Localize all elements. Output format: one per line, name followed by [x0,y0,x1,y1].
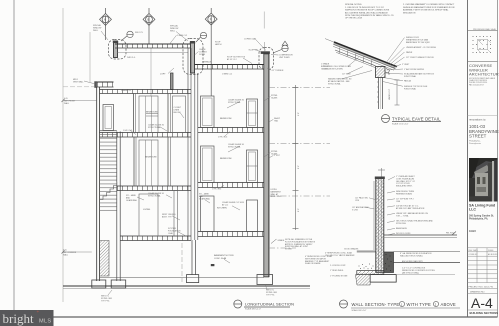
svg-text:ON 6 MIL POLY VAPOR BARRIER: ON 6 MIL POLY VAPOR BARRIER [325,254,355,257]
label lintel basement [271,189,283,198]
svg-text:1 MEM CL2: 1 MEM CL2 [177,35,187,37]
general notes block 1 [345,3,394,20]
leader stl jamb mid [205,200,210,203]
svg-text:C: C [210,17,212,21]
svg-text:B: B [148,17,150,21]
tb table lines [468,248,498,310]
svg-text:OF THE IRC 2018: OF THE IRC 2018 [345,18,363,20]
basement dim dash line [181,243,183,282]
tb arch line [468,60,498,62]
svg-text:TYPICAL EAVE DETAIL: TYPICAL EAVE DETAIL [392,117,441,122]
label sys furring [168,228,181,235]
label common wall left [63,250,77,257]
detail tag circle 3 [273,41,288,53]
wall section detail [340,168,461,308]
svg-text:ABOVE: ABOVE [441,302,456,307]
svg-text:GLASS: GLASS [271,96,278,99]
svg-text:SCALE 3/4"=1'-0": SCALE 3/4"=1'-0" [352,309,367,312]
svg-text:AS 4 LAYERS INSTALLED IN ACCOR: AS 4 LAYERS INSTALLED IN ACCORDANCE [345,11,388,14]
svg-text:GRADE: GRADE [278,239,285,242]
ws title sym2 [433,301,438,306]
svg-text:SCALE 1 1/2"=1'-0": SCALE 1 1/2"=1'-0" [392,123,409,126]
svg-text:1 HR. CLG: 1 HR. CLG [212,189,222,191]
eave title underline [392,121,441,123]
eave detail group [325,38,441,123]
door L2 [139,96,158,133]
title block left border [467,0,469,317]
leader strwl glass upper [264,97,271,102]
svg-text:8'-2": 8'-2" [298,165,300,169]
loft ceiling line [118,52,189,54]
leader clear glass R2 [227,102,240,109]
svg-text:BUILDING SECTIONS: BUILDING SECTIONS [470,311,499,315]
label sea ip [274,117,281,122]
border left line [13,0,15,317]
partition L2b [167,94,169,133]
svg-text:A-4: A-4 [471,295,493,311]
eave dim vertical [388,74,400,105]
leader compressor [271,54,279,57]
svg-text:MLS: MLS [39,319,51,325]
column mid ground [174,191,178,237]
leader clear glass L1 [166,195,172,198]
window sill lines R3 [247,165,258,167]
left ref tick line upper [63,100,97,102]
svg-text:CONC. SLAB: CONC. SLAB [214,257,227,260]
svg-text:BEDROOM: BEDROOM [146,112,157,114]
svg-text:1" AVC FROM VENTED: 1" AVC FROM VENTED [404,68,425,71]
tb table header [469,249,499,256]
svg-text:BARRICADE TIP 100 SQFK: BARRICADE TIP 100 SQFK [406,41,431,44]
svg-text:FIN. FLR: FIN. FLR [446,233,454,235]
footing right [257,275,273,285]
floor band R2 [198,128,264,133]
rear section front wall [195,73,198,240]
svg-text:UNIT PLATF.: UNIT PLATF. [279,56,290,59]
border right line [497,0,499,317]
floor band L2 [100,90,192,94]
svg-text:STREET: STREET [285,249,293,251]
svg-text:GOOD GRADES: GOOD GRADES [344,248,359,251]
eave leader lines left [342,58,372,79]
svg-text:ASSEMBLY WITH STONE WOOL SPECI: ASSEMBLY WITH STONE WOOL SPECIF SEAL [403,9,449,12]
window R3 [201,146,215,183]
svg-text:AT CL2: AT CL2 [222,203,228,206]
svg-text:2" VENT: 2" VENT [402,64,410,66]
stair interior wall [117,132,120,282]
svg-text:WELL: WELL [170,30,175,32]
eave wall siding ticks [377,82,379,102]
leader stl jamb [137,197,144,200]
svg-text:HATCH: HATCH [215,43,222,46]
svg-text:STRUCTURAL: STRUCTURAL [228,101,241,104]
svg-text:1. USE ROOF TILINGS FROM 2 TO: 1. USE ROOF TILINGS FROM 2 TO 3 1/2 [345,7,385,9]
ws leaders left [366,198,375,209]
label closet L2 [174,107,182,114]
grid marker A [100,8,112,40]
svg-text:SCALE 3/16"=1'-0": SCALE 3/16"=1'-0" [245,308,261,311]
svg-text:LOFT: LOFT [160,74,166,76]
left lot dimension line [62,8,64,302]
svg-text:Pennsylvania: Pennsylvania [469,143,482,145]
svg-text:REV. DATE: REV. DATE [469,249,479,252]
svg-text:1" RIGID INSUL: 1" RIGID INSUL [330,270,344,272]
svg-text:STRUCTURAL: STRUCTURAL [228,145,241,148]
label stack left of grid A [93,24,102,32]
grid marker C [205,8,217,96]
svg-text:X CRS: X CRS [352,209,359,211]
leader roof gutter [243,58,252,64]
svg-text:AT 45° CL2: AT 45° CL2 [227,58,237,61]
roof step wall [191,42,195,74]
label stack grid B right [170,25,179,33]
label stairwell glass right [271,95,278,99]
svg-text:1 HR. CLG: 1 HR. CLG [123,130,133,132]
label glass dividers L3 [148,124,164,129]
svg-text:TYP. FTG.: TYP. FTG. [266,294,275,296]
detail tag circle 1 [121,31,133,41]
label glass dividers R2 [228,99,244,104]
window sill lines L2 [146,113,158,115]
svg-text:STRUCTURAL: STRUCTURAL [148,126,161,129]
svg-text:BEDROOM: BEDROOM [220,118,231,120]
leader chase [195,52,199,56]
window left wall u1 [103,105,114,131]
leader sea ip [270,120,274,122]
partition L3a [133,137,135,186]
svg-text:BASE/SHOE: BASE/SHOE [396,227,408,230]
grid marker B [143,8,155,96]
window R2r [247,99,258,128]
leader scupper [256,50,261,52]
leader sys foundation [178,232,186,236]
closet L2 [173,96,186,133]
stair zigzag [100,182,117,200]
front section rear wall [188,48,191,240]
partition L3b [167,137,169,186]
door R1 [201,196,215,232]
leader window well B [176,32,188,42]
svg-text:PAPER: PAPER [406,51,413,54]
svg-text:DRAWING NO.: DRAWING NO. [470,291,485,294]
roof band left [115,44,190,48]
svg-text:1 MEM CL2: 1 MEM CL2 [121,90,131,92]
ws grade hatch triangle [355,275,370,285]
svg-text:INSULATED VENT.: INSULATED VENT. [396,185,413,188]
svg-text:1 MEM CL2: 1 MEM CL2 [222,74,232,76]
window R1r [247,200,258,232]
svg-text:8'-0": 8'-0" [298,208,300,212]
svg-text:WITH TYPE: WITH TYPE [407,302,432,307]
bright mls logo [0,310,54,326]
tb photo [469,158,498,202]
leader min vent wall [84,81,96,84]
HTML text layer [0,0,499,1]
note block right of section [285,238,316,251]
eave roof slope lower lines [333,44,395,68]
section title longitudinal circle [234,300,242,308]
label footing right dtl [266,290,277,297]
svg-text:FUNCTIONAL: FUNCTIONAL [404,75,416,78]
ws gwb line left [373,181,375,250]
leader 2ext [270,156,274,158]
left cornice [63,81,114,88]
svg-text:PROJECT NO. 200-1770: PROJECT NO. 200-1770 [469,287,494,289]
floor band L1 ground [120,236,191,241]
floor band L4 [117,186,191,191]
leader clear glass R3 [228,146,240,152]
footing left1 [92,280,106,288]
eave title circle [382,115,390,123]
ws title underline [351,307,460,309]
leader 1hr mid [218,186,224,189]
door ground L [139,194,158,236]
svg-text:A: A [104,17,106,21]
label far right stack [321,63,330,71]
svg-text:SHINGLES MANUFACTURER FOR STAN: SHINGLES MANUFACTURER FOR STANDARD ROOF [403,6,456,9]
leader see dtl left [108,290,112,295]
parapet wall [114,41,118,58]
label str right margin [271,151,278,155]
basement slab line [100,277,265,279]
svg-text:PROFESSIONAL SEAL: PROFESSIONAL SEAL [473,28,497,31]
svg-text:1 HR. CLG: 1 HR. CLG [218,137,228,139]
ws floor right arrow [452,232,456,236]
roof band right [195,65,264,70]
svg-text:STRUCTURAL: STRUCTURAL [328,82,341,85]
svg-text:LIVING: LIVING [143,209,150,211]
svg-text:WALL: WALL [63,253,68,256]
window sill lines R2 [247,112,258,114]
label footing left dtl [101,296,112,303]
text layer [63,3,456,312]
ws floor line right [384,234,457,236]
leader clear glass L3 [160,127,167,131]
ws wall hatched [376,179,384,273]
ws cap stub above [381,168,383,177]
leader fire ceiling [172,216,180,220]
svg-text:FUNCTIONAL: FUNCTIONAL [404,87,416,90]
leader loft [168,68,174,74]
svg-text:COMM. BY: COMM. BY [469,254,479,256]
left wall extension line above cornice [89,32,91,82]
svg-text:WALL SECTION- TYPE: WALL SECTION- TYPE [352,302,400,307]
eave gutter mark [386,69,390,74]
leader lines main section [84,31,279,295]
tb spring garden [469,215,494,234]
svg-text:LONGITUDINAL SECTION: LONGITUDINAL SECTION [245,302,294,307]
svg-text:TYP. FTG.: TYP. FTG. [101,300,110,302]
svg-text:2 #4 RODS CONT.: 2 #4 RODS CONT. [330,265,346,267]
right exterior wall [264,54,269,277]
label stl stair [126,194,137,202]
stair lower hatched flight [100,241,110,277]
svg-text:(AS STRUCTURAL): (AS STRUCTURAL) [402,271,419,274]
leader 1hr r3 [224,132,230,137]
ws slab band [357,271,384,275]
leader coping cap [255,39,266,51]
svg-text:2" EXT: 2" EXT [274,155,281,157]
border bottom line [14,316,498,318]
right dim extension line y86 [269,87,330,89]
svg-text:BASEMENT NOT FIN: BASEMENT NOT FIN [214,254,234,257]
svg-text:1/2" CD/EXT GRADE PLYWOOD: 1/2" CD/EXT GRADE PLYWOOD [406,56,435,59]
eave rafter ticks [339,47,372,66]
ws slab line right [394,251,461,253]
left ref tick line lower [63,251,92,253]
svg-text:8BLK CONC.: 8BLK CONC. [271,196,283,198]
svg-text:VENT WALL: VENT WALL [73,80,84,83]
tb seal cube dots [473,36,492,53]
svg-text:Philadelphia, PA.: Philadelphia, PA. [469,218,489,221]
ws leaders right [387,177,395,236]
label clear glass L1 [148,192,164,197]
label fire damper [162,214,176,218]
svg-text:ISSUE: ISSUE [488,250,494,252]
window R3r [247,150,258,183]
ws wall cap [375,177,385,180]
floor band R3 [198,183,264,188]
svg-text:renovations to:: renovations to: [469,118,486,122]
svg-text:19123: 19123 [469,230,476,233]
label min wall left [73,79,84,83]
label compressed tag right [279,55,293,59]
svg-text:bright: bright [3,311,34,326]
svg-text:COPING CAP: COPING CAP [244,38,257,41]
svg-text:STREET: STREET [469,134,487,139]
svg-text:GUARDRAIL: GUARDRAIL [126,199,137,202]
parapet callout bubble [108,40,126,60]
svg-text:ARCHITECTURE: ARCHITECTURE [469,72,499,77]
svg-text:VARIES 8'-0": VARIES 8'-0" [388,89,391,100]
label clear glass kitchen [222,201,244,206]
floor band L3 [100,133,192,138]
svg-text:1/2" GWB: 1/2" GWB [342,74,351,76]
svg-text:ANCHORED MASONRY: ANCHORED MASONRY [402,260,424,263]
right wall callout bubble [259,48,274,70]
leader strwl glass lower [264,153,271,158]
label roof drain [227,57,246,61]
svg-text:AS BUILDS: AS BUILDS [488,253,498,256]
svg-text:SPECIAL NOTES:: SPECIAL NOTES: [345,3,362,6]
eave ceiling chord [335,50,376,66]
svg-text:WOOD FLOORS: WOOD FLOORS [396,233,411,235]
right dim extension line y143 [269,143,330,145]
svg-text:FAX 215-822-3717: FAX 215-822-3717 [469,83,484,86]
svg-text:WALL (AS STRUCTURAL): WALL (AS STRUCTURAL) [400,254,423,257]
right vertical dimension line [293,85,299,230]
svg-text:BEDROOM: BEDROOM [145,157,156,159]
ws footing white [370,275,396,283]
eave detail labels [323,37,437,90]
right wall coping [261,51,270,54]
svg-text:TOE — TOTAL: TOE — TOTAL [396,214,409,217]
dim slash ticks left lot line [62,99,65,254]
leader clear glass kitchen [232,206,240,210]
ws concrete foundation wall dark [384,252,394,273]
svg-text:SLAB ON GRADE: SLAB ON GRADE [305,262,321,265]
right dim extension line y196 [269,195,330,197]
tb reno line [468,115,498,117]
svg-text:2HR CLG: 2HR CLG [127,57,136,59]
svg-text:2. CHROME WARRANTY LICENSED WI: 2. CHROME WARRANTY LICENSED WITH CONTACT [403,3,455,6]
leader 1hr clg l3 [130,130,136,134]
right dim extension line y248 [269,247,296,249]
loft flue bar [171,73,174,90]
svg-text:WELL: WELL [93,30,98,32]
svg-text:STRUCING: STRUCING [396,223,406,225]
section title longitudinal underline [244,306,290,308]
basement party wall [192,240,196,275]
title block text [469,28,499,315]
title block [468,31,498,310]
label glass dividers R3 [228,143,244,148]
svg-text:ASSY. TYP.: ASSY. TYP. [162,215,172,218]
ws title circle [340,300,348,308]
eave leader lines right [383,38,405,87]
svg-text:9'-8": 9'-8" [298,112,300,116]
svg-text:KITCHEN: KITCHEN [217,208,227,210]
label basement [214,254,234,260]
label ref front wall left [64,98,76,105]
svg-text:LLC: LLC [469,208,476,212]
svg-text:BELOW: BELOW [174,112,181,114]
svg-text:INSULATION R-49 MIN: INSULATION R-49 MIN [323,67,343,70]
svg-text:FIBERMIX BOARD: FIBERMIX BOARD [396,192,413,195]
tb address [469,77,496,87]
svg-text:GUARDRAIL: GUARDRAIL [199,197,210,200]
svg-text:STRUCTURAL: STRUCTURAL [148,194,161,197]
stair upper ladder [100,131,117,212]
label stl jamb mid [199,193,210,201]
svg-text:TERRACE: TERRACE [202,61,212,64]
left exterior wall [97,87,100,281]
svg-text:12" TURNDN: 12" TURNDN [272,70,284,72]
svg-text:1" POURED STONE: 1" POURED STONE [330,276,348,278]
leader 12 turndn [267,68,272,70]
eave fascia block [376,67,386,78]
eave wall below [379,78,383,110]
svg-text:DOWN: DOWN [199,54,206,56]
eave roof slope band fill [333,42,396,69]
wall section labels [325,89,454,278]
ws gravel dots [359,264,374,270]
window R2 [201,96,215,128]
leader basement [224,259,230,263]
eave roof extension line upper [325,39,336,43]
label roof hatch [215,42,222,46]
ws slab top line [357,251,376,253]
partition L2a [133,94,135,133]
svg-text:SCUPPER: SCUPPER [249,50,259,52]
general notes block 2 [403,3,456,14]
svg-text:BEDROOM: BEDROOM [220,158,231,160]
svg-text:SIM. DTL: SIM. DTL [135,32,143,34]
floor band R1 [198,232,264,237]
svg-text:FASCIA: FASCIA [404,80,411,83]
svg-text:INSULATION: INSULATION [403,11,416,14]
leader window well A [101,31,108,40]
leader closet linen [180,113,184,119]
roof step callout bubble [183,39,203,75]
svg-text:UNDERLAYMENT - CL2 ROOFING: UNDERLAYMENT - CL2 ROOFING [406,46,437,49]
svg-text:WALL: WALL [64,102,69,105]
label conc slab note [305,255,332,265]
tb seal line [468,30,498,32]
detail tag circle 2 [196,32,207,42]
svg-text:CLAD: CLAD [168,232,174,235]
svg-text:WITH THE REQUIREMENTS IN TABLE: WITH THE REQUIREMENTS IN TABLE SPECS. CD [345,14,394,17]
